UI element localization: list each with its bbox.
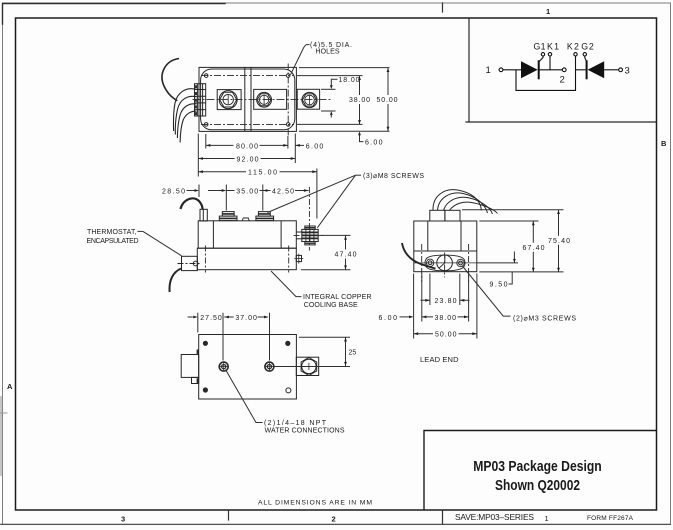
svg-text:ENCAPSULATED: ENCAPSULATED bbox=[87, 238, 139, 245]
hex fitting cross bbox=[308, 363, 310, 370]
lead wire 2 bbox=[438, 193, 488, 213]
bottom hole top-left bbox=[203, 341, 207, 345]
title block box bbox=[424, 431, 657, 511]
lead clamp inner column lines bbox=[197, 84, 202, 116]
thermostat centerline bbox=[178, 263, 202, 265]
extension body right bottom bbox=[476, 274, 478, 339]
hex fitting hexagon bbox=[301, 358, 317, 376]
centerline mid vertical bbox=[444, 253, 446, 278]
pad top extension short bbox=[321, 88, 336, 90]
extension tick screw2 center bbox=[262, 185, 264, 211]
extension water2 center bbox=[269, 313, 271, 361]
tab bolt marks bbox=[197, 350, 199, 384]
outer border darker top-left segment bbox=[3, 4, 226, 25]
svg-text:2: 2 bbox=[332, 515, 336, 524]
dim 6.00 arrow lead end bbox=[400, 316, 412, 318]
dim line 38.00 vertical bbox=[359, 76, 361, 125]
dim line 47.40 bbox=[345, 235, 347, 269]
extension line body right below bbox=[294, 134, 296, 164]
hex screw 3 center cross bbox=[309, 96, 311, 105]
terminal screw 2 hatch bbox=[256, 214, 274, 219]
zone tick bottom mid bbox=[228, 510, 230, 520]
hex screw 2 outer circle bbox=[257, 92, 272, 107]
svg-text:(2)1/4–18 NPT: (2)1/4–18 NPT bbox=[264, 420, 327, 427]
extension water1 center bbox=[222, 313, 224, 361]
lead wire 3 bbox=[444, 197, 493, 214]
extension 38 right bbox=[468, 274, 470, 322]
leader to terminal screw 2 bbox=[268, 175, 356, 212]
wire lead 3 bbox=[177, 104, 196, 138]
extension line hole col left below bbox=[205, 134, 207, 149]
thyristor Q2 cathode bar bbox=[586, 60, 588, 79]
bottom hole bottom-left bbox=[203, 388, 207, 392]
svg-text:THERMOSTAT,: THERMOSTAT, bbox=[87, 229, 137, 236]
gate G1 lead bbox=[539, 56, 543, 62]
section divider line 2 bbox=[250, 67, 252, 131]
svg-text:INTEGRAL COPPER: INTEGRAL COPPER bbox=[303, 294, 372, 301]
svg-text:WATER CONNECTIONS: WATER CONNECTIONS bbox=[265, 427, 345, 434]
wire lead 4 bbox=[180, 111, 196, 142]
water connection 1 inner bbox=[222, 365, 226, 369]
hex screw 2 center cross bbox=[263, 96, 265, 104]
extension tick side body left bbox=[198, 185, 200, 198]
terminal 2 circle bbox=[562, 68, 566, 72]
M8 bolt axis centerline bbox=[294, 234, 325, 236]
leader to mounting holes bbox=[291, 45, 310, 75]
lead wire 4 bbox=[450, 202, 498, 213]
extension 23.8 left bbox=[429, 274, 431, 306]
thick wire arc left bbox=[402, 243, 436, 269]
extension body top right bbox=[479, 220, 538, 222]
lead clamp bolt heads bbox=[195, 85, 198, 115]
svg-text:1: 1 bbox=[545, 514, 549, 523]
terminal block right bbox=[445, 210, 460, 221]
zone tick bottom right bbox=[442, 510, 444, 524]
hex fitting circle bbox=[302, 359, 316, 373]
dim 6.00 bracket right bbox=[360, 135, 364, 142]
wire Q2 cathode segment bbox=[576, 69, 586, 71]
centerline hole column right dashdot bbox=[287, 64, 289, 136]
gland pointer marks bbox=[439, 255, 445, 268]
svg-text:25: 25 bbox=[349, 349, 357, 356]
svg-text:G1: G1 bbox=[534, 42, 546, 52]
terminal pad 1 bbox=[217, 90, 241, 110]
extension leads top bbox=[462, 209, 564, 211]
water gland center circle bbox=[437, 255, 453, 271]
dim 9.50 bracket bbox=[509, 272, 513, 284]
module top notch bbox=[242, 218, 249, 221]
centerline hole row bottom bbox=[201, 123, 294, 125]
arrow at 9.50 top bbox=[513, 252, 515, 263]
svg-text:3: 3 bbox=[625, 65, 630, 76]
extension line hole col right below bbox=[287, 136, 289, 149]
mounting hole top-left bbox=[204, 74, 208, 78]
thyristor Q1 cathode bar bbox=[538, 60, 540, 79]
water connection 2 inner bbox=[267, 365, 271, 369]
extension 25 top bbox=[299, 336, 350, 338]
K1 terminal circle bbox=[548, 53, 551, 56]
M3 screw side bbox=[296, 255, 301, 261]
svg-text:47.40: 47.40 bbox=[335, 252, 357, 259]
gland horizontal centerline bbox=[414, 262, 477, 264]
thyristor Q1 triangle bbox=[521, 61, 538, 78]
dim line 75.40 bbox=[558, 210, 560, 272]
bottom hole bottom-right bbox=[286, 388, 291, 393]
water connection 2 cross bbox=[265, 363, 273, 371]
svg-text:A: A bbox=[7, 382, 13, 391]
dim 27.50 arrows bbox=[188, 316, 234, 318]
lead exit block side bbox=[200, 209, 207, 221]
svg-text:50.00: 50.00 bbox=[377, 97, 398, 104]
mounting hole bottom-right bbox=[286, 123, 290, 127]
base centerline right bbox=[288, 246, 290, 273]
svg-text:37.00: 37.00 bbox=[235, 315, 257, 322]
lead clamp row lines bbox=[195, 90, 206, 110]
extension 25 bottom hex centerline bbox=[274, 366, 350, 368]
hex screw 2 hexagon bbox=[257, 94, 271, 106]
svg-text:75.40: 75.40 bbox=[548, 238, 570, 245]
terminal screw 2 side flange bbox=[256, 216, 274, 221]
svg-text:(3)⌀M8 SCREWS: (3)⌀M8 SCREWS bbox=[363, 173, 424, 180]
dim 35.00 line bbox=[226, 190, 262, 192]
dim line 38.00 lead end bbox=[422, 316, 469, 318]
outer border bottom darker line bbox=[0, 523, 671, 525]
svg-text:38.00: 38.00 bbox=[349, 97, 370, 104]
dim 42.50 line bbox=[263, 190, 309, 192]
M8 bolt collar top bbox=[305, 226, 315, 229]
hex screw 1 hexagon bbox=[220, 92, 237, 107]
svg-text:9.50: 9.50 bbox=[490, 282, 508, 289]
svg-text:115.00: 115.00 bbox=[248, 170, 277, 177]
extension gland centerline right bbox=[477, 262, 518, 264]
module ceramic edge left bbox=[212, 221, 214, 249]
svg-text:MP03 Package Design: MP03 Package Design bbox=[473, 458, 602, 475]
left tab notch bbox=[192, 377, 199, 383]
lead end inner vertical left bbox=[427, 221, 429, 251]
zone tick left bbox=[0, 412, 7, 414]
svg-text:SAVE:MP03–SERIES: SAVE:MP03–SERIES bbox=[455, 512, 534, 522]
svg-text:35.00: 35.00 bbox=[236, 188, 258, 195]
dim line 80.00 bbox=[206, 144, 288, 146]
wire lead 2 bbox=[175, 96, 196, 134]
dim line 50.00 vertical bbox=[387, 68, 389, 132]
G2 terminal circle bbox=[583, 53, 586, 56]
section divider line 1 bbox=[244, 67, 246, 131]
wire terminal1 to thyristor Q1 anode bbox=[503, 69, 521, 71]
dim line 50.00 lead end bbox=[414, 333, 477, 335]
svg-text:50.00: 50.00 bbox=[435, 332, 457, 339]
gate G2 lead bbox=[585, 56, 587, 62]
hex screw 1 outer circle bbox=[219, 91, 237, 109]
terminal block left bbox=[430, 210, 445, 221]
mounting hole bottom-left bbox=[204, 123, 208, 127]
lead clamp block bbox=[195, 84, 206, 116]
svg-text:K1: K1 bbox=[547, 42, 559, 52]
dim 6.00 arrow bbox=[295, 144, 304, 146]
wire Q1 cathode to terminal 2 bbox=[539, 69, 563, 71]
extension line hole row bottom right bbox=[297, 123, 363, 125]
terminal 3 circle bbox=[619, 68, 623, 72]
svg-text:ALL DIMENSIONS ARE IN MM: ALL DIMENSIONS ARE IN MM bbox=[258, 500, 372, 507]
leader M3 screws bbox=[462, 266, 511, 317]
dim line 92.00 bbox=[198, 158, 295, 160]
svg-text:6.00: 6.00 bbox=[306, 143, 324, 150]
svg-text:67.40: 67.40 bbox=[523, 245, 545, 252]
hex screw 1 center cross bbox=[227, 95, 229, 104]
extension line hole row top right bbox=[297, 75, 363, 77]
extension body bottom right bbox=[479, 271, 563, 273]
scan smudge left margin bbox=[0, 396, 2, 476]
svg-text:HOLES: HOLES bbox=[316, 49, 340, 56]
wire bottom loop node1 to Q2 cathode bbox=[516, 70, 576, 91]
dim 28.50 arrows bbox=[187, 190, 225, 192]
extension body left down bbox=[197, 313, 199, 333]
water connection 1 outer bbox=[219, 362, 228, 371]
wire lead 1 bbox=[173, 89, 196, 131]
svg-text:FORM FF267A: FORM FF267A bbox=[587, 515, 634, 522]
gland screw right bbox=[459, 261, 463, 265]
svg-text:6.00: 6.00 bbox=[379, 315, 398, 322]
extension 38 left bbox=[421, 274, 423, 322]
svg-text:1: 1 bbox=[546, 7, 550, 16]
hex fitting pad bbox=[296, 357, 318, 375]
terminal screw 1 side cap bbox=[222, 212, 234, 217]
svg-text:Shown Q20002: Shown Q20002 bbox=[495, 477, 580, 494]
svg-text:6.00: 6.00 bbox=[365, 140, 383, 147]
lead exit block inner line bbox=[202, 209, 204, 221]
dim line 115.00 bbox=[198, 171, 317, 173]
extension line 115 right / bolt bbox=[316, 169, 318, 219]
water leader bbox=[226, 370, 263, 423]
bottom hole top-right bbox=[286, 341, 290, 345]
gland screw left bbox=[428, 261, 432, 265]
dim 18.00 bracket bbox=[331, 79, 337, 117]
water gland stadium outline bbox=[425, 255, 465, 271]
schematic box left line bbox=[468, 18, 470, 122]
svg-text:42.50: 42.50 bbox=[272, 188, 294, 195]
gland screw left outer bbox=[426, 259, 433, 266]
mounting hole top-right bbox=[286, 74, 290, 78]
extension body left bottom bbox=[413, 274, 415, 339]
svg-text:2: 2 bbox=[560, 75, 565, 86]
hex screw 1 inner circle bbox=[223, 94, 233, 104]
K2 terminal circle bbox=[574, 53, 577, 56]
lead wire 1 bbox=[433, 190, 482, 211]
schematic box bottom line bbox=[466, 121, 657, 123]
extension tick screw1 center bbox=[225, 185, 227, 211]
thermostat screw circle bbox=[193, 261, 198, 266]
left tab bottom view bbox=[181, 355, 199, 378]
module ceramic edge right bbox=[280, 221, 282, 249]
centerline screwL vertical bbox=[421, 244, 423, 282]
side view module body bbox=[198, 221, 296, 248]
centerline hole row top bbox=[201, 75, 294, 77]
svg-text:80.00: 80.00 bbox=[236, 143, 258, 150]
svg-text:B: B bbox=[661, 139, 667, 148]
label dash bbox=[356, 174, 362, 176]
hex screw 3 inner circle bbox=[305, 95, 315, 105]
M8 bolt stem bbox=[296, 231, 302, 233]
svg-text:27.50: 27.50 bbox=[200, 315, 222, 322]
terminal screw 1 hatch bbox=[219, 214, 237, 219]
dim line 25 bbox=[345, 337, 347, 366]
M8 bolt vertical centerline bbox=[308, 187, 310, 251]
extension 23.8 right bbox=[459, 274, 461, 306]
svg-text:K2: K2 bbox=[567, 42, 579, 52]
dim 37.00 line bbox=[258, 316, 267, 318]
side wire arc thick bbox=[181, 198, 203, 209]
cooling base side bbox=[197, 248, 296, 270]
svg-text:28.50: 28.50 bbox=[162, 188, 185, 195]
thermostat body bbox=[182, 256, 198, 270]
lead end body bbox=[414, 221, 477, 272]
wire Q2 anode to terminal 3 bbox=[604, 69, 619, 71]
M8 bolt collar bottom bbox=[305, 242, 315, 245]
svg-text:18.00: 18.00 bbox=[339, 77, 360, 84]
hex screw 3 hexagon bbox=[302, 94, 316, 106]
svg-text:G2: G2 bbox=[581, 42, 594, 52]
terminal pad 2 bbox=[254, 89, 287, 109]
lead end inner vertical right bbox=[460, 221, 462, 251]
svg-text:1: 1 bbox=[486, 65, 491, 76]
wire loop arc bbox=[162, 59, 179, 101]
extension line body top right bbox=[299, 67, 390, 69]
svg-text:92.00: 92.00 bbox=[237, 156, 259, 163]
thermostat leader dash bbox=[138, 230, 144, 232]
extension line body left below bbox=[197, 134, 199, 177]
thyristor Q2 triangle bbox=[588, 61, 605, 78]
thermostat wire arc bbox=[169, 269, 181, 293]
hex screw 3 outer circle bbox=[302, 92, 317, 107]
svg-text:38.00: 38.00 bbox=[435, 315, 457, 322]
extension line body bottom right bbox=[299, 130, 390, 132]
svg-text:3: 3 bbox=[121, 515, 125, 524]
extension line 47.40 bottom bbox=[301, 269, 351, 271]
pad bottom extension short bbox=[321, 110, 336, 112]
integral leader bbox=[271, 271, 302, 297]
terminal screw 1 side flange bbox=[219, 216, 237, 221]
M8 bolt side threads bbox=[302, 229, 318, 241]
K2 lead bbox=[575, 56, 577, 70]
bottom view body bbox=[199, 335, 297, 400]
centerline main horizontal bbox=[193, 99, 332, 101]
svg-text:COOLING BASE: COOLING BASE bbox=[304, 302, 358, 309]
top view body outline bbox=[199, 67, 296, 131]
water connection 1 cross bbox=[220, 363, 228, 371]
water connection 2 outer bbox=[265, 362, 274, 371]
terminal screw 2 side cap bbox=[258, 212, 270, 217]
base centerline left bbox=[204, 246, 206, 273]
thermostat leader bbox=[143, 231, 182, 255]
leader to M8 bolt bbox=[317, 175, 355, 228]
terminal pad 3 bbox=[297, 89, 319, 109]
svg-text:(2)⌀M3 SCREWS: (2)⌀M3 SCREWS bbox=[513, 315, 576, 322]
gland screw right outer bbox=[457, 259, 464, 266]
hex screw 2 inner circle bbox=[260, 95, 269, 104]
dim line 67.40 bbox=[532, 221, 534, 272]
svg-text:23.80: 23.80 bbox=[435, 298, 457, 305]
extension line 47.40 top bbox=[321, 234, 351, 236]
lead end base top line bbox=[414, 250, 477, 252]
K1 lead bbox=[549, 56, 551, 70]
zone tick top bbox=[442, 3, 444, 12]
G1 terminal circle bbox=[541, 53, 544, 56]
top view moulded plate rounded outline bbox=[201, 69, 295, 130]
svg-text:LEAD END: LEAD END bbox=[420, 355, 459, 364]
dim 23.80 arrows bbox=[421, 299, 470, 301]
terminal 1 circle bbox=[499, 68, 503, 72]
centerline screwR vertical bbox=[468, 244, 470, 282]
